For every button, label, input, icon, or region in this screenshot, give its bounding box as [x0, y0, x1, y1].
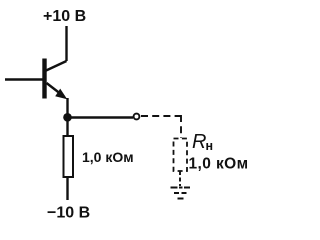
output terminal (open circle) — [134, 114, 140, 120]
wire base lead — [5, 78, 43, 80]
svg-text:−10 В: −10 В — [47, 205, 90, 222]
dashed wire corner down — [180, 115, 182, 138]
node junction dot — [63, 113, 72, 122]
svg-text:1,0 кОм: 1,0 кОм — [189, 156, 249, 173]
transistor Q1 base bar — [42, 59, 46, 99]
wire emitter to node — [66, 98, 68, 117]
svg-text:R: R — [192, 131, 206, 153]
wire node to output terminal — [68, 116, 134, 118]
resistor RH (dashed body) — [174, 139, 188, 172]
svg-text:1,0 кОм: 1,0 кОм — [82, 149, 134, 165]
wire resistor to ground (dashed) — [179, 171, 181, 186]
transistor Q1 emitter lead with arrow — [47, 83, 65, 97]
wire collector to +10V — [65, 26, 67, 61]
resistor R1 body — [64, 136, 74, 177]
svg-text:+10 В: +10 В — [43, 8, 86, 25]
wire node to resistor R1 — [66, 117, 68, 136]
ground — [171, 188, 191, 199]
wire resistor to -10V — [66, 177, 68, 200]
transistor Q1 collector lead — [45, 61, 67, 71]
dashed wire to load — [141, 115, 181, 117]
svg-text:н: н — [206, 139, 214, 153]
